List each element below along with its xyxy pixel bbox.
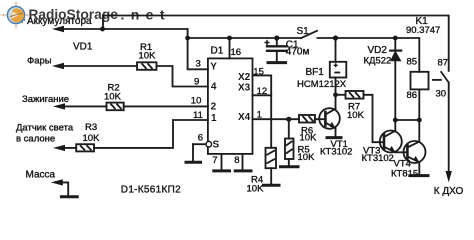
svg-text:VD1: VD1 (73, 41, 93, 52)
svg-text:К ДХО: К ДХО (434, 186, 464, 197)
svg-text:10K: 10K (300, 133, 318, 144)
svg-text:1: 1 (211, 113, 217, 124)
svg-text:16: 16 (231, 47, 242, 58)
svg-text:4: 4 (211, 81, 217, 92)
svg-text:1: 1 (257, 110, 262, 121)
svg-text:X4: X4 (238, 112, 251, 123)
svg-text:КД522: КД522 (364, 55, 392, 66)
svg-text:HCM1212X: HCM1212X (297, 79, 347, 90)
svg-text:в салоне: в салоне (16, 133, 55, 144)
svg-text:Датчик света: Датчик света (16, 123, 74, 134)
svg-text:10K: 10K (139, 51, 157, 62)
svg-text:6: 6 (198, 132, 203, 143)
svg-text:КТ815: КТ815 (391, 168, 418, 179)
svg-text:2: 2 (211, 101, 217, 112)
svg-text:Y: Y (210, 61, 217, 72)
svg-text:S: S (213, 140, 220, 151)
svg-text:Radio: Radio (29, 6, 67, 22)
svg-text:12: 12 (257, 86, 268, 97)
svg-text:8: 8 (234, 155, 239, 166)
svg-text:87: 87 (438, 58, 449, 69)
svg-text:10K: 10K (104, 91, 122, 102)
svg-text:D1-К561КП2: D1-К561КП2 (121, 185, 181, 196)
svg-text:Масса: Масса (26, 170, 56, 181)
svg-text:R3: R3 (85, 122, 97, 133)
svg-text:15: 15 (253, 66, 264, 77)
svg-text:11: 11 (193, 110, 203, 121)
svg-text:7: 7 (212, 155, 217, 166)
svg-text:3: 3 (196, 59, 201, 70)
svg-text:X2: X2 (238, 72, 251, 83)
svg-text:10: 10 (191, 96, 202, 107)
svg-text:КТ3102: КТ3102 (362, 153, 394, 164)
svg-text:10K: 10K (83, 133, 101, 144)
svg-text:90.3747: 90.3747 (406, 25, 440, 36)
svg-text:30: 30 (436, 88, 447, 99)
svg-text:86: 86 (407, 90, 418, 101)
svg-text:9: 9 (194, 76, 199, 87)
svg-text:Storage: Storage (67, 6, 119, 22)
svg-text:BF1: BF1 (306, 67, 325, 78)
svg-text:D1: D1 (211, 45, 224, 56)
svg-text:Зажигание: Зажигание (22, 94, 69, 105)
svg-text:85: 85 (407, 56, 418, 67)
svg-text:X3: X3 (238, 83, 251, 94)
svg-text:10K: 10K (247, 184, 265, 195)
svg-text:10K: 10K (347, 110, 365, 121)
svg-text:470м: 470м (286, 47, 310, 58)
svg-text:КТ3102: КТ3102 (320, 147, 352, 158)
svg-text:Фары: Фары (27, 56, 52, 67)
svg-text:10K: 10K (298, 152, 316, 163)
svg-text:S1: S1 (297, 26, 310, 37)
